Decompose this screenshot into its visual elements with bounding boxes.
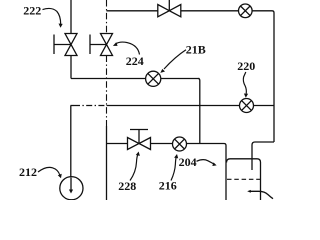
- valve 224: [90, 34, 113, 56]
- wire: vertical from 21B line down: [198, 79, 200, 144]
- valve circle-X 216: [173, 137, 187, 151]
- valve circle-X 21B: [146, 71, 161, 86]
- label 212 leader: [38, 167, 62, 178]
- label 204 leader: [197, 160, 217, 166]
- svg-text:222: 222: [23, 3, 41, 17]
- label 21B leader: [160, 50, 186, 73]
- wire: pipe below valve 222: [70, 56, 72, 79]
- svg-text:212: 212: [19, 165, 37, 179]
- svg-text:228: 228: [118, 179, 136, 193]
- svg-text:224: 224: [126, 54, 144, 68]
- valve 228: [128, 130, 151, 150]
- wire: horizontal line y=105.5: [71, 105, 75, 107]
- valve circle-X top right: [239, 4, 253, 18]
- label 220 leader: [243, 72, 248, 98]
- svg-text:216: 216: [159, 178, 177, 192]
- wire: dash-dot vertical below valve 224: [106, 56, 108, 127]
- label 222: [43, 8, 63, 27]
- wire: solid vertical to bottom: [106, 126, 108, 200]
- label 228 leader: [130, 152, 140, 181]
- wire: top horizontal line: [107, 10, 273, 12]
- wire: left vertical pipe top: [70, 0, 72, 34]
- valve top (unlabeled): [158, 0, 181, 17]
- wire: pipe from valve 228 to tank: [151, 144, 227, 201]
- label 224 leader: [113, 42, 140, 54]
- wire: elbow into tank pipe: [252, 142, 274, 170]
- svg-text:204: 204: [179, 155, 197, 169]
- pump 212: [60, 177, 83, 200]
- wire: vertical down to pump 212: [70, 106, 72, 178]
- svg-text:21B: 21B: [186, 42, 206, 56]
- svg-text:220: 220: [237, 59, 255, 73]
- wire: horizontal line y=143.5 to valve 228: [107, 143, 128, 145]
- leader to label 202 (cut off): [250, 191, 274, 198]
- wire: horizontal line y=78.5: [71, 78, 200, 80]
- label 216 leader: [171, 154, 178, 181]
- wire: dash-dot vertical above valve 224: [106, 0, 108, 34]
- valve 222: [54, 34, 77, 56]
- tank 204: [227, 159, 261, 200]
- valve circle-X 220: [240, 99, 254, 113]
- wire: right vertical pipe: [272, 11, 274, 142]
